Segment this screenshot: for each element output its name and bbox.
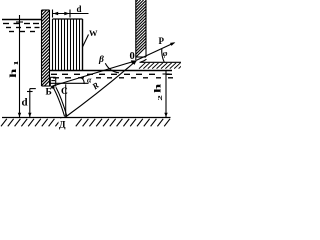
svg-text:β: β xyxy=(98,55,104,65)
svg-text:С: С xyxy=(61,87,68,97)
svg-text:0: 0 xyxy=(130,51,135,62)
svg-text:Д: Д xyxy=(59,121,66,131)
svg-text:φ: φ xyxy=(163,49,168,58)
svg-text:W: W xyxy=(89,28,98,38)
svg-text:d: d xyxy=(22,97,28,109)
svg-text:Б: Б xyxy=(46,87,52,97)
svg-text:d: d xyxy=(77,4,82,14)
svg-text:P: P xyxy=(159,36,165,46)
